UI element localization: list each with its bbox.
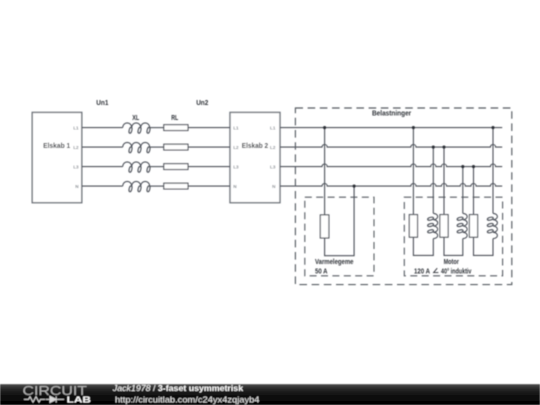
- wire L3 bus from Elskab 2 into Belastninger (with crossover hops): [280, 164, 502, 167]
- wire N from Elskab 1 to XL coil: [82, 185, 123, 187]
- motor resistor R1: [409, 215, 417, 238]
- inductor XL on line L3 (coil): [123, 162, 150, 167]
- motor coil 1 loop 3: [427, 229, 434, 233]
- resistor RL on line L1: [164, 125, 188, 131]
- motor resistor R3: [469, 215, 477, 238]
- svg-text:Elskab 1: Elskab 1: [43, 141, 70, 150]
- node L3 / motor R3 junction: [472, 165, 475, 168]
- svg-text:Jack1978 / 3-faset usymmetrisk: Jack1978 / 3-faset usymmetrisk: [112, 383, 244, 393]
- motor coil 3 loop 3: [487, 229, 494, 233]
- svg-text:Elskab 2: Elskab 2: [242, 141, 268, 150]
- wire from L1 down to heating resistor: [324, 128, 326, 215]
- wire L2 bus from Elskab 2 into Belastninger (with crossover hops): [280, 145, 502, 148]
- node N / heating return junction: [353, 185, 356, 188]
- motor coil 1 loop 1: [427, 217, 434, 221]
- logo diode symbol: [46, 396, 64, 402]
- wire L1 from RL to Elskab 2: [188, 127, 230, 129]
- motor inductor coil 1: [433, 213, 437, 238]
- motor coil 3 loop 2: [487, 223, 494, 227]
- svg-text:L2: L2: [233, 145, 239, 150]
- svg-text:LAB: LAB: [67, 396, 92, 405]
- svg-text:Belastninger: Belastninger: [372, 109, 411, 118]
- svg-text:Un1: Un1: [96, 98, 108, 107]
- inductor XL line L2 loop 3: [146, 147, 150, 154]
- wire L1 down to motor resistor R1: [412, 128, 414, 215]
- wire N from RL to Elskab 2: [188, 185, 230, 187]
- resistor R heating element (Varmelegeme): [320, 215, 329, 238]
- logo resistor symbol: [24, 397, 45, 402]
- inductor XL line L3 loop 2: [137, 166, 141, 173]
- svg-text:L3: L3: [233, 164, 239, 169]
- svg-text:L1: L1: [233, 125, 239, 130]
- motor coil 2 loop 2: [457, 223, 464, 227]
- wire from heating resistor to N (bottom return): [325, 186, 355, 256]
- resistor RL on line L2: [164, 144, 188, 150]
- resistor RL on line L3: [164, 164, 188, 170]
- inductor XL line L1 loop 2: [137, 127, 141, 134]
- svg-text:RL: RL: [171, 113, 178, 122]
- node L3 / motor coil2 junction: [461, 165, 464, 168]
- inductor XL line L2 loop 2: [137, 147, 141, 154]
- wire L3 from XL to RL: [150, 166, 164, 168]
- box Elskab 1 (source cabinet): [32, 112, 82, 202]
- wire L1 from Elskab 1 to XL coil: [82, 127, 123, 129]
- wire L2 from XL to RL: [150, 146, 164, 148]
- svg-text:Motor: Motor: [444, 257, 459, 266]
- inductor XL line N loop 3: [146, 186, 150, 193]
- motor resistor R2: [440, 215, 448, 238]
- motor coil 2 loop 1: [457, 217, 464, 221]
- wire motor branch1 bottom U (R1 to L1-coil): [413, 237, 433, 255]
- wire L3 from Elskab 1 to XL coil: [82, 166, 123, 168]
- svg-text:L3: L3: [73, 164, 79, 169]
- box Elskab 2 (distribution cabinet): [230, 112, 280, 202]
- wire L3 from RL to Elskab 2: [188, 166, 230, 168]
- svg-text:Un2: Un2: [196, 98, 208, 107]
- svg-text:L2: L2: [270, 145, 276, 150]
- wire motor branch2 bottom U (R2 to L3-coil): [444, 237, 463, 255]
- resistor RL on line N: [164, 183, 188, 189]
- svg-text:50 A: 50 A: [315, 266, 328, 275]
- svg-text:XL: XL: [132, 113, 139, 122]
- inductor XL line L2 loop 1: [128, 147, 132, 154]
- inductor XL on line L1 (coil): [123, 123, 150, 128]
- angle symbol in motor rating: [434, 268, 439, 272]
- wire L1 down to motor coil 3: [492, 128, 494, 214]
- wire L1 from XL to RL: [150, 127, 164, 129]
- wire L1 bus from Elskab 2 into Belastninger (with crossover hops): [280, 127, 502, 129]
- dashed box Belastninger: [295, 108, 511, 285]
- svg-text:http://circuitlab.com/c24yx4zq: http://circuitlab.com/c24yx4zqjayb4: [115, 395, 260, 405]
- wire L2 from Elskab 1 to XL coil: [82, 146, 123, 148]
- inductor XL on line N (coil): [123, 181, 150, 186]
- svg-text:L1: L1: [270, 125, 276, 130]
- wire L3 down to motor resistor R3: [473, 167, 475, 215]
- inductor XL line L3 loop 1: [128, 166, 132, 173]
- node L1 / heating resistor junction: [323, 126, 326, 129]
- motor inductor coil 3: [493, 213, 497, 238]
- inductor XL line N loop 2: [137, 186, 141, 193]
- inductor XL line N loop 1: [128, 186, 132, 193]
- dashed box Varmelegeme: [305, 197, 374, 276]
- motor inductor coil 2: [463, 213, 467, 238]
- wire motor branch3 bottom U (R3 to L1-coil): [474, 237, 494, 255]
- wire L2 down to motor coil 1: [432, 147, 434, 213]
- footer black bar: [0, 384, 540, 405]
- node L2 / motor R2 junction: [442, 146, 445, 149]
- svg-text:L1: L1: [73, 125, 79, 130]
- inductor XL line L3 loop 3: [146, 166, 150, 173]
- wire N from XL to RL: [150, 185, 164, 187]
- inductor XL line L1 loop 3: [146, 127, 150, 134]
- node L1 / motor R1 junction: [412, 126, 415, 129]
- wire L2 from RL to Elskab 2: [188, 146, 230, 148]
- motor coil 2 loop 3: [457, 229, 464, 233]
- svg-text:120 A: 120 A: [414, 266, 430, 275]
- wire N bus from Elskab 2 into Belastninger (with crossover hops): [280, 183, 502, 186]
- svg-text:L3: L3: [270, 164, 276, 169]
- wire L2 down to motor resistor R2: [443, 147, 445, 215]
- node L1 / motor coil3 junction: [491, 126, 494, 129]
- dashed box Motor: [404, 197, 502, 276]
- wire L3 down to motor coil 2: [462, 167, 464, 214]
- node L2 / motor coil1 junction: [432, 146, 435, 149]
- inductor XL on line L2 (coil): [123, 142, 150, 147]
- svg-text:Varmelegeme: Varmelegeme: [315, 257, 354, 266]
- motor coil 1 loop 2: [427, 223, 434, 227]
- svg-text:L2: L2: [73, 145, 79, 150]
- inductor XL line L1 loop 1: [128, 127, 132, 134]
- motor coil 3 loop 1: [487, 217, 494, 221]
- svg-text:40° induktiv: 40° induktiv: [441, 266, 471, 275]
